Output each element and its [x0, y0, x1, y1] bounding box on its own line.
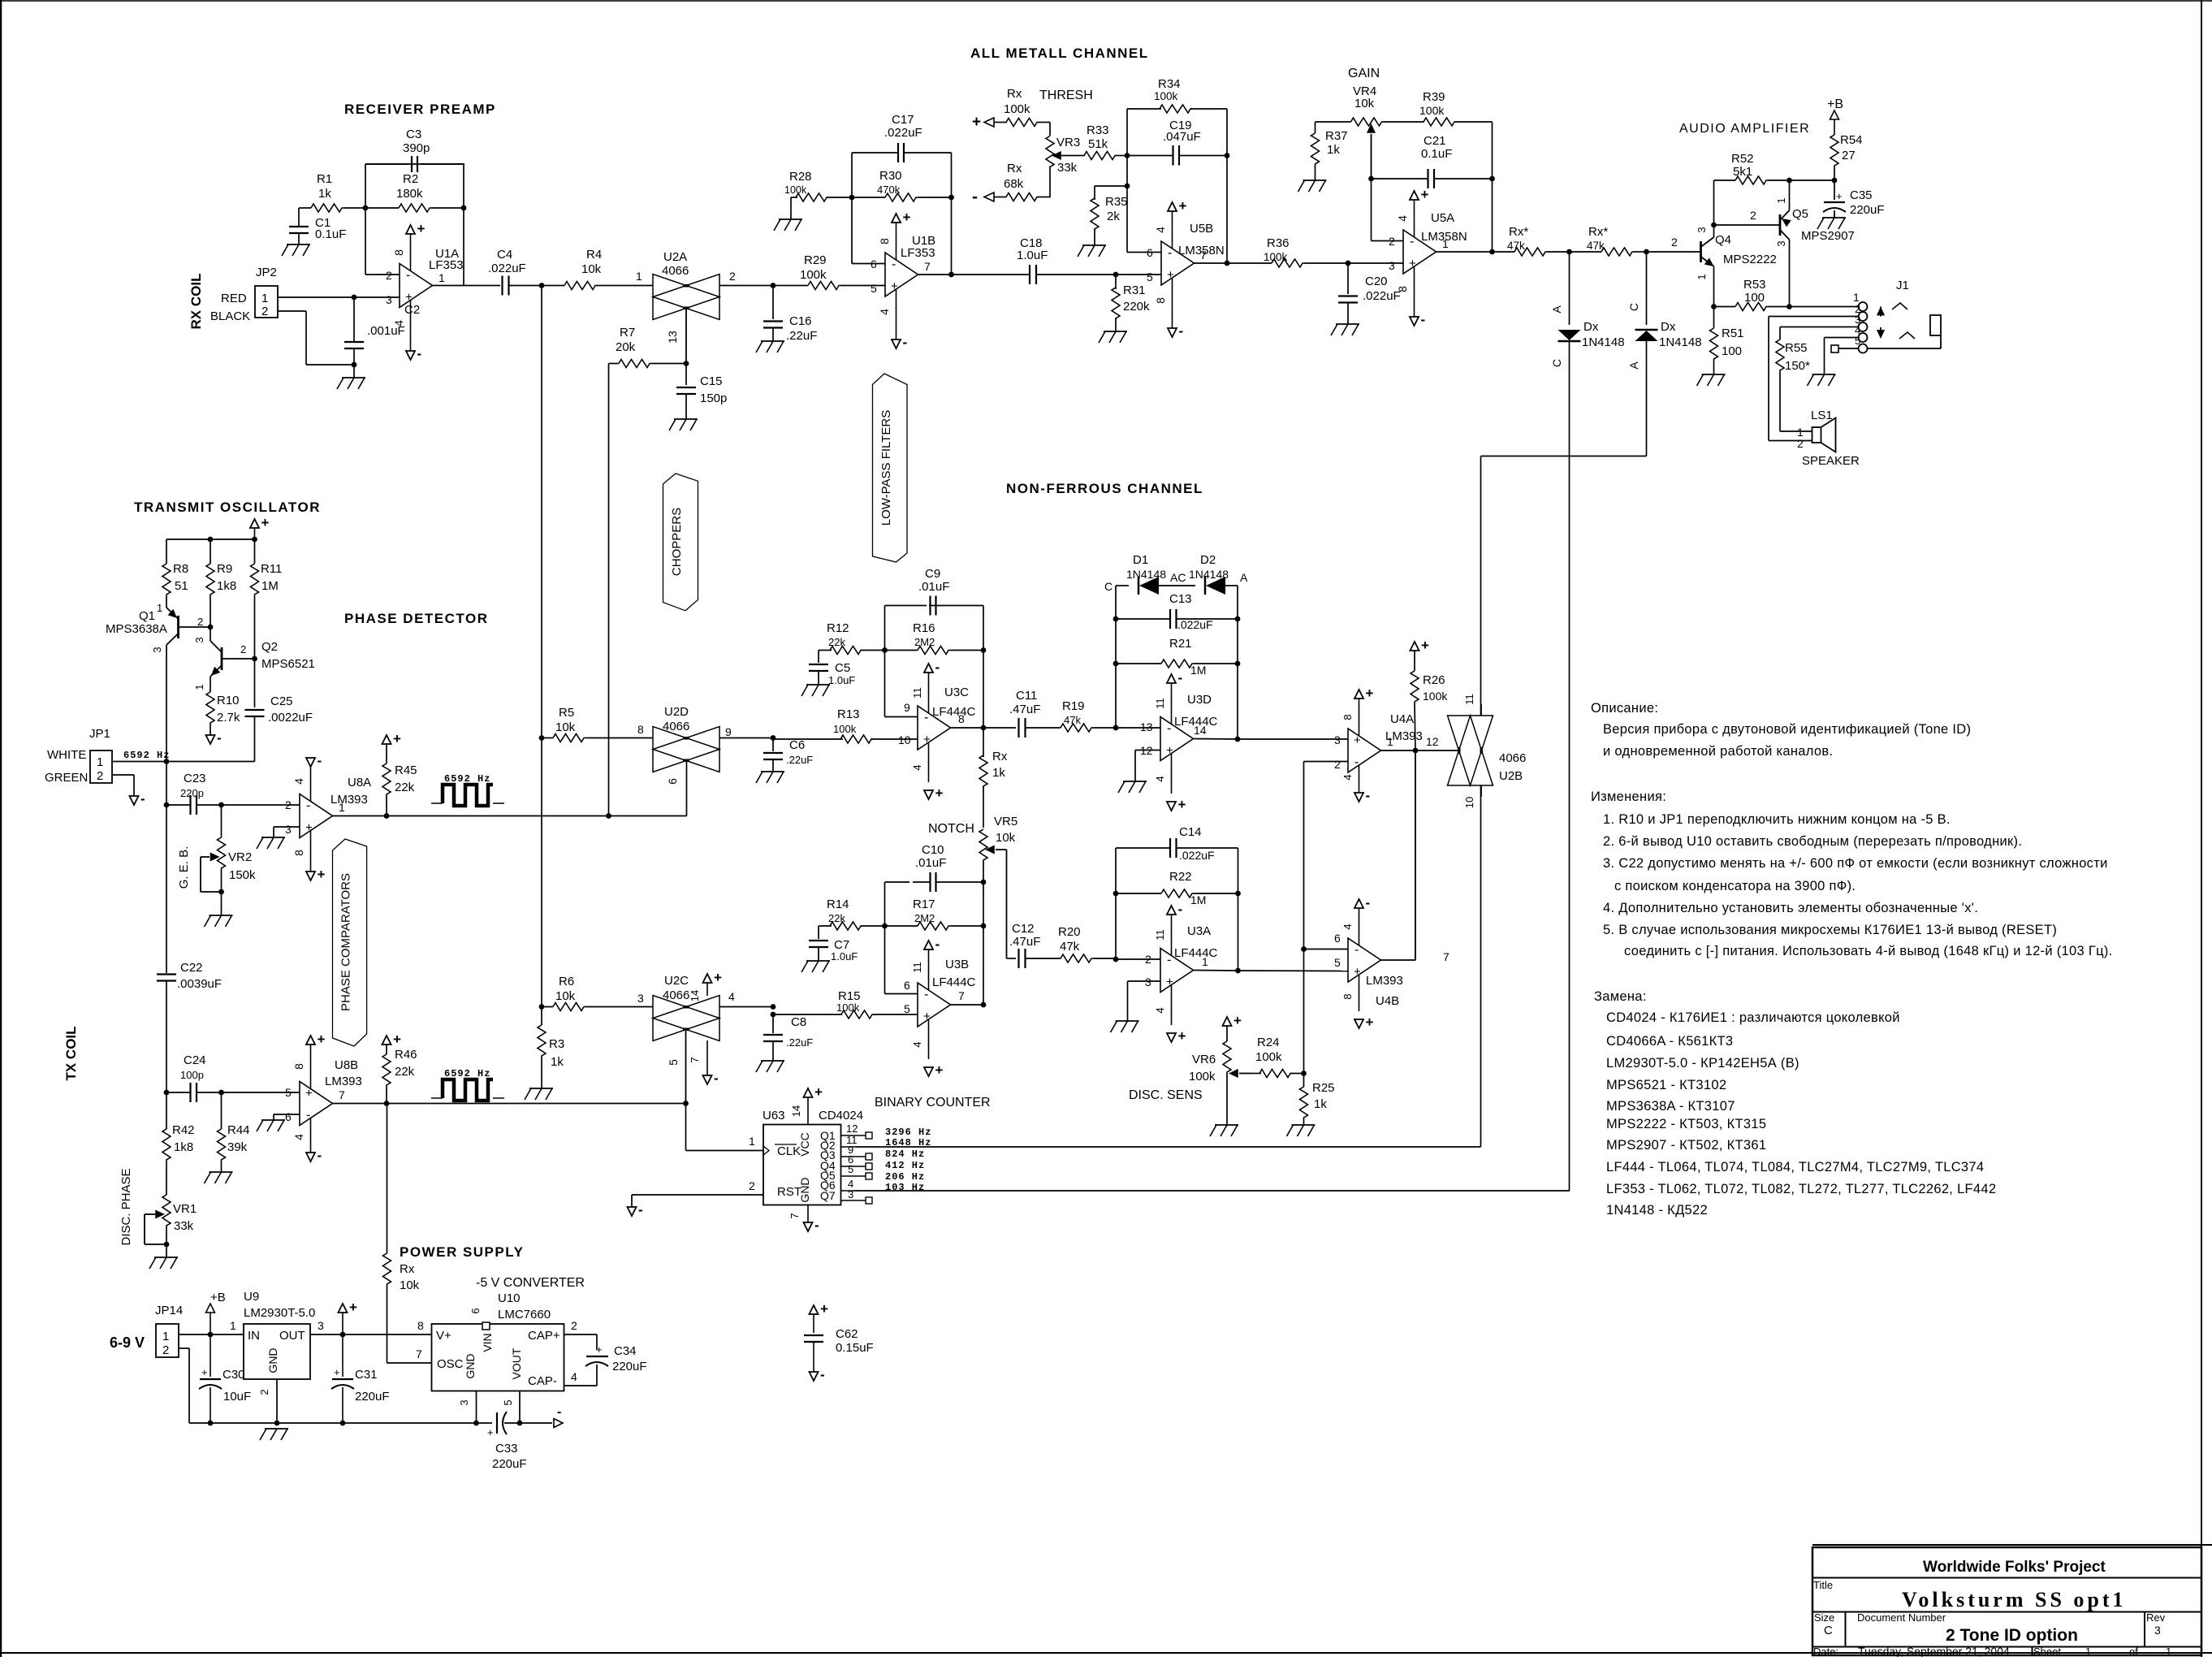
- potentiometer VR6: [1189, 1026, 1251, 1125]
- svg-text:2k: 2k: [1107, 210, 1120, 223]
- wire J1 pin4 to ground: [1825, 338, 1859, 375]
- svg-text:R10: R10: [217, 694, 240, 707]
- node C13 right: [1235, 616, 1241, 622]
- node R31 top: [1113, 272, 1119, 278]
- svg-text:LM393: LM393: [1385, 729, 1423, 743]
- svg-text:1: 1: [97, 755, 103, 769]
- svg-text:10: 10: [898, 733, 911, 746]
- svg-text:100p: 100p: [180, 1069, 204, 1081]
- wire 1648Hz riser to U63 Q2: [855, 786, 1481, 1147]
- resistor R42: [162, 1092, 195, 1180]
- svg-text:C: C: [1824, 1624, 1833, 1637]
- power V- U4A pin 4: [1341, 765, 1370, 803]
- svg-text:Rx: Rx: [1007, 162, 1022, 175]
- U63 Q6 wire 103Hz: [841, 1178, 856, 1191]
- power V- supply: [520, 1405, 563, 1428]
- svg-text:R11: R11: [261, 562, 282, 576]
- power V+ U3D pin 4: [1154, 754, 1186, 813]
- svg-text:LM358N: LM358N: [1178, 244, 1225, 257]
- svg-text:2: 2: [729, 270, 736, 283]
- wire U5A in-: [1372, 179, 1404, 241]
- svg-text:LF444C: LF444C: [1174, 946, 1218, 960]
- wire: [1316, 122, 1349, 133]
- resistor R7: [609, 326, 687, 368]
- wire C14 riser right: [1238, 848, 1239, 971]
- wire C9 riser: [983, 606, 984, 729]
- power V+ U63 pin 14: [790, 1084, 823, 1125]
- svg-text:GREEN: GREEN: [45, 771, 88, 785]
- svg-text:R14: R14: [827, 898, 849, 911]
- capacitor C20: [1338, 263, 1401, 324]
- wire J1 pin2 to speaker: [1769, 317, 1859, 441]
- svg-text:100k: 100k: [1154, 90, 1178, 102]
- svg-text:1: 1: [157, 602, 162, 614]
- wire U8B out rail: [387, 1103, 686, 1105]
- svg-text:TX COIL: TX COIL: [63, 1026, 79, 1080]
- svg-text:Document Number: Document Number: [1857, 1611, 1946, 1624]
- potentiometer VR2: [201, 805, 256, 892]
- svg-text:8: 8: [292, 1063, 305, 1070]
- node U4A out: [1413, 748, 1419, 754]
- wire U8A out rail: [387, 815, 609, 817]
- resistor R16: [885, 621, 984, 655]
- svg-text:C13: C13: [1169, 592, 1192, 606]
- svg-text:-: -: [217, 730, 222, 746]
- capacitor C31: [331, 1334, 390, 1423]
- svg-text:RX COIL: RX COIL: [188, 274, 204, 330]
- svg-text:2: 2: [571, 1319, 577, 1332]
- wire: [885, 882, 910, 926]
- svg-text:LS1: LS1: [1811, 409, 1833, 422]
- power V- U3A pin 11: [1154, 902, 1182, 956]
- svg-text:MPS2907: MPS2907: [1801, 229, 1855, 243]
- terminal square: [1831, 345, 1838, 353]
- svg-text:Dx: Dx: [1661, 320, 1676, 334]
- resistor Rx* 47k second: [1570, 225, 1647, 256]
- svg-text:100k: 100k: [800, 268, 827, 282]
- svg-text:Rx*: Rx*: [1588, 225, 1608, 239]
- svg-text:LMC7660: LMC7660: [498, 1308, 551, 1321]
- node A diode top: [1566, 249, 1572, 255]
- svg-text:-: -: [306, 1109, 310, 1122]
- wire Q2 collector: [210, 627, 211, 641]
- resistor Rx 1k notch: [979, 728, 1008, 828]
- capacitor C22: [157, 961, 222, 1092]
- node R54 bottom: [1832, 178, 1838, 184]
- svg-text:DISC. SENS: DISC. SENS: [1129, 1088, 1203, 1102]
- node gnd rail U10 pin5: [517, 1421, 523, 1426]
- wire U10 pin4: [564, 1370, 598, 1386]
- wire U4B in-: [1304, 949, 1349, 950]
- svg-text:-: -: [406, 269, 410, 283]
- svg-text:A: A: [1627, 361, 1640, 370]
- svg-text:R37: R37: [1325, 129, 1348, 143]
- svg-text:7: 7: [924, 260, 931, 273]
- svg-text:C2: C2: [404, 303, 420, 317]
- svg-text:10: 10: [1463, 797, 1475, 808]
- svg-text:1k: 1k: [1314, 1097, 1327, 1111]
- svg-text:33k: 33k: [174, 1219, 194, 1233]
- svg-text:JP14: JP14: [155, 1304, 183, 1317]
- power V+ U4B pin 8: [1341, 975, 1374, 1030]
- svg-text:4: 4: [1154, 776, 1166, 781]
- capacitor C2: [344, 297, 420, 365]
- svg-text:1: 1: [193, 684, 205, 690]
- svg-text:R25: R25: [1312, 1081, 1335, 1095]
- svg-text:3. C22 допустимо менять на +/-: 3. C22 допустимо менять на +/- 600 пФ от…: [1603, 856, 2108, 871]
- svg-text:CLK: CLK: [777, 1144, 801, 1158]
- capacitor C11: [983, 689, 1061, 738]
- svg-text:+: +: [417, 221, 426, 236]
- banner PHASE COMPARATORS: [333, 839, 367, 1046]
- power V- U1B pin 4: [878, 289, 907, 350]
- wire Q5 base: [1714, 209, 1781, 225]
- svg-text:3: 3: [1775, 240, 1787, 246]
- op-amp U1A: [386, 247, 464, 308]
- svg-text:10k: 10k: [555, 989, 576, 1003]
- svg-text:+: +: [305, 1087, 313, 1101]
- wire Q2 base: [222, 658, 255, 660]
- ground: [801, 685, 830, 696]
- svg-text:33k: 33k: [1057, 161, 1078, 175]
- svg-text:.047uF: .047uF: [1163, 130, 1201, 144]
- wire Q5 emitter: [1789, 180, 1791, 210]
- svg-text:1k8: 1k8: [174, 1140, 193, 1154]
- svg-text:VR3: VR3: [1056, 136, 1080, 149]
- svg-text:10k: 10k: [581, 262, 602, 276]
- svg-text:100k: 100k: [836, 1001, 860, 1014]
- svg-text:220uF: 220uF: [492, 1457, 527, 1471]
- svg-text:-: -: [924, 711, 928, 725]
- node R1-R2 junction: [363, 205, 369, 211]
- wire gnd rail: [210, 1422, 477, 1424]
- svg-text:.0022uF: .0022uF: [268, 711, 313, 725]
- node C23 left: [164, 802, 170, 808]
- svg-text:14: 14: [790, 1105, 802, 1117]
- capacitor C13: [1116, 592, 1238, 631]
- label GAIN: [1348, 67, 1380, 80]
- svg-text:C4: C4: [497, 248, 512, 262]
- svg-text:1N4148 - КД522: 1N4148 - КД522: [1606, 1203, 1708, 1218]
- svg-text:1: 1: [1696, 274, 1708, 279]
- svg-text:3: 3: [1145, 975, 1151, 988]
- node R53 right: [1786, 304, 1792, 309]
- svg-text:C33: C33: [495, 1442, 518, 1456]
- resistor R14: [819, 898, 885, 930]
- svg-text:10k: 10k: [1354, 97, 1375, 110]
- svg-text:5: 5: [1855, 335, 1860, 347]
- svg-text:Q5: Q5: [1792, 207, 1808, 221]
- svg-text:U2C: U2C: [664, 974, 689, 988]
- svg-text:220uF: 220uF: [612, 1360, 647, 1373]
- power V- U5B pin 8: [1154, 278, 1183, 339]
- svg-text:+: +: [1366, 686, 1374, 701]
- power V+ U4A pin 8: [1341, 686, 1374, 736]
- wire U3A in+ to ground: [1128, 981, 1161, 1021]
- svg-text:47k: 47k: [1507, 240, 1525, 252]
- capacitor C12: [1007, 922, 1061, 968]
- svg-text:1k: 1k: [992, 766, 1005, 780]
- svg-text:U3C: U3C: [944, 686, 969, 699]
- wire JP14 pin1: [179, 1319, 244, 1334]
- capacitor C35: [1823, 180, 1885, 218]
- svg-text:3: 3: [1389, 259, 1395, 272]
- svg-text:C: C: [1627, 303, 1640, 311]
- svg-text:22k: 22k: [395, 1065, 415, 1079]
- resistor R55: [1776, 340, 1812, 431]
- wire VR5 riser: [983, 882, 984, 1005]
- svg-text:R31: R31: [1123, 283, 1146, 297]
- wire 103Hz riser to U63 Q6: [855, 1190, 1570, 1192]
- ground: [257, 1120, 285, 1131]
- wire R34 riser left: [1126, 109, 1128, 253]
- node C4 out: [539, 283, 545, 288]
- svg-text:R20: R20: [1058, 925, 1081, 939]
- wire U2C out: [719, 1006, 773, 1008]
- svg-text:PHASE COMPARATORS: PHASE COMPARATORS: [339, 873, 353, 1011]
- wire U8B out: [333, 1103, 387, 1105]
- svg-text:5: 5: [848, 1163, 853, 1175]
- U63 Q2 wire 1648Hz: [841, 1134, 858, 1147]
- svg-text:1: 1: [1853, 291, 1860, 304]
- svg-text:+: +: [972, 114, 981, 131]
- resistor R21: [1116, 637, 1238, 677]
- wire U2A control pin 13: [666, 309, 686, 364]
- label 103 Hz: [885, 1182, 925, 1193]
- svg-text:7: 7: [339, 1088, 345, 1101]
- svg-text:100k: 100k: [1264, 251, 1288, 263]
- svg-text:12: 12: [846, 1122, 858, 1135]
- svg-text:+: +: [903, 210, 911, 225]
- svg-text:+: +: [1366, 1014, 1374, 1030]
- svg-text:соединить с [-] питания. Испол: соединить с [-] питания. Использовать 4-…: [1624, 944, 2113, 958]
- power V- U63 pin 7: [788, 1205, 819, 1234]
- ground: [1817, 218, 1846, 229]
- svg-text:JP1: JP1: [89, 727, 110, 741]
- svg-text:Описание:: Описание:: [1591, 701, 1658, 716]
- wire Q1 emitter: [166, 606, 167, 608]
- resistor R44: [218, 1092, 250, 1172]
- power V+ C62: [810, 1301, 829, 1317]
- svg-text:100: 100: [1722, 344, 1742, 358]
- svg-text:R29: R29: [804, 253, 827, 267]
- svg-text:4: 4: [1341, 923, 1354, 929]
- svg-text:R34: R34: [1158, 77, 1181, 91]
- svg-text:8: 8: [878, 238, 891, 244]
- svg-text:2: 2: [258, 1389, 270, 1395]
- svg-text:.01uF: .01uF: [915, 856, 946, 870]
- svg-text:1: 1: [230, 1319, 236, 1332]
- svg-text:C22: C22: [180, 961, 203, 975]
- svg-text:100k: 100k: [1423, 690, 1448, 703]
- svg-text:+: +: [1233, 1013, 1242, 1028]
- svg-text:1M: 1M: [261, 579, 279, 593]
- svg-text:SPEAKER: SPEAKER: [1802, 454, 1860, 468]
- power V- R10: [206, 730, 222, 746]
- svg-text:150k: 150k: [229, 868, 256, 882]
- svg-text:11: 11: [911, 687, 923, 699]
- svg-text:U8B: U8B: [335, 1058, 358, 1072]
- svg-text:R26: R26: [1423, 673, 1445, 687]
- diode Dx second 1N4148: [1627, 252, 1702, 456]
- label DISC. PHASE: [119, 1168, 133, 1245]
- svg-text:C12: C12: [1012, 922, 1035, 936]
- svg-text:2: 2: [197, 616, 203, 628]
- section title BINARY COUNTER: [875, 1096, 991, 1109]
- node R22 right: [1235, 891, 1241, 897]
- svg-text:1N4148: 1N4148: [1189, 568, 1229, 581]
- svg-text:150p: 150p: [700, 391, 727, 405]
- svg-text:22k: 22k: [395, 781, 415, 794]
- svg-text:Q1: Q1: [139, 609, 155, 623]
- svg-text:U9: U9: [244, 1290, 259, 1304]
- svg-text:+: +: [1354, 733, 1361, 747]
- wire JP1 pin2: [112, 775, 134, 796]
- wire Q4 base: [1647, 236, 1701, 252]
- svg-text:-: -: [972, 188, 978, 206]
- svg-text:C21: C21: [1424, 134, 1446, 148]
- russian notes: [1591, 701, 2113, 1218]
- svg-text:-: -: [903, 335, 908, 350]
- svg-text:7: 7: [689, 1057, 701, 1062]
- svg-text:C35: C35: [1850, 188, 1873, 202]
- svg-text:Rx: Rx: [400, 1262, 415, 1276]
- svg-text:8: 8: [1341, 714, 1354, 720]
- svg-text:6: 6: [285, 1110, 292, 1123]
- power V+ U2C pin 14: [689, 970, 722, 1001]
- svg-text:C31: C31: [355, 1368, 378, 1382]
- ground: [260, 1429, 288, 1440]
- svg-text:R42: R42: [172, 1123, 195, 1137]
- svg-text:-: -: [820, 1367, 825, 1382]
- svg-text:U8A: U8A: [348, 776, 371, 789]
- node TX drive: [164, 759, 170, 764]
- svg-text:9: 9: [725, 725, 732, 738]
- section title TRANSMIT OSCILLATOR: [134, 500, 321, 515]
- node R16 right: [981, 647, 987, 653]
- section title NON-FERROUS CHANNEL: [1006, 481, 1203, 496]
- svg-text:13: 13: [1140, 720, 1153, 733]
- svg-text:8: 8: [292, 850, 305, 856]
- op-amp U1B: [871, 234, 935, 296]
- svg-text:3: 3: [458, 1399, 470, 1405]
- svg-text:+: +: [596, 1343, 603, 1356]
- svg-text:+: +: [334, 1366, 340, 1378]
- svg-text:2: 2: [1797, 437, 1804, 450]
- svg-text:R46: R46: [395, 1048, 417, 1062]
- svg-text:+: +: [714, 970, 722, 985]
- svg-text:JP2: JP2: [256, 266, 277, 279]
- resistor R13: [773, 707, 918, 743]
- svg-text:4: 4: [878, 309, 891, 315]
- node U2D out: [771, 735, 776, 741]
- svg-text:Версия прибора с двутоновой ид: Версия прибора с двутоновой идентификаци…: [1603, 722, 1971, 737]
- svg-text:220k: 220k: [1123, 300, 1150, 314]
- node VR2 bottom: [218, 889, 224, 895]
- label 3296 Hz: [885, 1127, 931, 1138]
- svg-text:220uF: 220uF: [355, 1390, 390, 1404]
- ground: [525, 1088, 553, 1100]
- svg-text:+B: +B: [1827, 97, 1843, 111]
- svg-text:Q7: Q7: [820, 1189, 836, 1202]
- svg-text:68k: 68k: [1004, 177, 1024, 191]
- svg-text:6592 Hz: 6592 Hz: [123, 750, 170, 761]
- wire: [884, 606, 886, 651]
- svg-text:R33: R33: [1087, 123, 1109, 137]
- op-amp U4B: [1334, 932, 1449, 1008]
- svg-text:+: +: [318, 867, 326, 882]
- U63 Q5 stub: [841, 1163, 873, 1179]
- wire Q1 collector: [166, 645, 167, 762]
- svg-text:2: 2: [240, 643, 246, 655]
- node R46 bottom: [384, 1101, 390, 1106]
- op-amp U8A: [285, 776, 371, 838]
- svg-text:2 Tone ID option: 2 Tone ID option: [1946, 1626, 2078, 1645]
- wire: [1116, 727, 1160, 729]
- svg-text:D2: D2: [1200, 553, 1216, 567]
- ground: [1331, 324, 1359, 335]
- svg-text:4: 4: [392, 320, 405, 327]
- svg-text:Q2: Q2: [261, 640, 278, 654]
- svg-text:POWER SUPPLY: POWER SUPPLY: [400, 1244, 524, 1260]
- wire: [278, 296, 400, 298]
- wire 1648Hz net horizontal: [1481, 456, 1647, 716]
- connector JP14: [155, 1304, 183, 1357]
- svg-text:2.7k: 2.7k: [217, 711, 240, 725]
- svg-text:C23: C23: [184, 772, 206, 785]
- svg-text:CAP+: CAP+: [528, 1329, 560, 1343]
- svg-text:R53: R53: [1743, 278, 1766, 292]
- svg-text:LF353: LF353: [901, 246, 935, 260]
- connector J1: [1855, 279, 1909, 353]
- power V+ R45: [382, 731, 402, 746]
- svg-text:+: +: [487, 1426, 494, 1438]
- power V- U3C pin 11: [911, 660, 940, 713]
- svg-text:R44: R44: [227, 1123, 250, 1137]
- svg-text:-: -: [814, 1218, 819, 1233]
- svg-text:.22uF: .22uF: [786, 329, 817, 343]
- svg-text:-: -: [1410, 235, 1414, 249]
- section title RECEIVER PREAMP: [344, 102, 496, 117]
- svg-text:+: +: [405, 291, 413, 305]
- node feedback junction: [461, 205, 467, 211]
- wire U8B in+: [222, 1092, 300, 1093]
- ground: [1697, 374, 1726, 386]
- svg-text:+: +: [1409, 257, 1416, 270]
- svg-text:+: +: [305, 821, 313, 835]
- svg-text:LM2930T-5.0: LM2930T-5.0: [244, 1306, 315, 1320]
- node C23 right: [218, 802, 224, 808]
- svg-text:C30: C30: [222, 1368, 245, 1382]
- svg-text:LM393: LM393: [325, 1075, 362, 1088]
- svg-text:.022uF: .022uF: [1179, 849, 1215, 862]
- node U3C out: [981, 725, 987, 731]
- svg-text:1N4148: 1N4148: [1126, 568, 1166, 581]
- svg-text:8: 8: [392, 249, 405, 256]
- speaker LS1: [1797, 409, 1860, 468]
- svg-text:2: 2: [162, 1343, 169, 1357]
- svg-text:5: 5: [285, 1086, 292, 1099]
- node U2A out: [771, 283, 776, 288]
- svg-text:3: 3: [151, 647, 163, 652]
- wire: [1437, 251, 1493, 253]
- svg-text:LM393: LM393: [331, 793, 368, 807]
- port minus input Rx: [972, 87, 1030, 131]
- svg-text:2M2: 2M2: [914, 636, 935, 648]
- svg-text:4: 4: [292, 1134, 305, 1140]
- op-amp U5B: [1147, 222, 1225, 285]
- resistor R25: [1300, 1074, 1335, 1126]
